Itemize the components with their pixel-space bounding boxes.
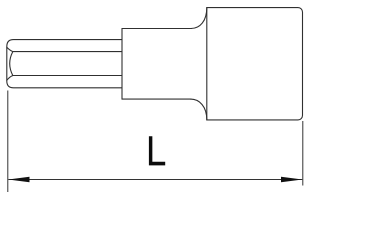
arrowhead right: [281, 177, 302, 182]
extension line left: [7, 91, 9, 193]
shank end chamfer arc top: [7, 47, 13, 51]
hex flat line upper: [13, 51, 122, 53]
arrowhead left: [8, 177, 29, 182]
extension line right: [302, 121, 304, 186]
fillet flare top: [191, 8, 207, 29]
fillet flare bottom: [191, 99, 207, 120]
shank end chamfer arc bottom: [7, 76, 13, 81]
collar bottom edge: [122, 98, 191, 100]
collar top edge: [122, 28, 192, 30]
label L: [149, 136, 165, 165]
socket body: [207, 8, 303, 120]
collar left face: [121, 29, 123, 100]
shank end chamfer arc middle: [10, 52, 13, 76]
dimension line: [8, 179, 302, 181]
hex flat line lower: [13, 75, 122, 77]
hex shank outline: [7, 40, 122, 88]
